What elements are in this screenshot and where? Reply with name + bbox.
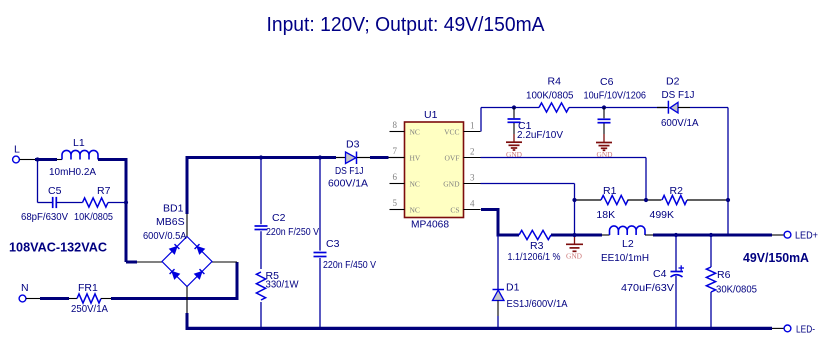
svg-text:2.2uF/10V: 2.2uF/10V [517, 129, 563, 141]
svg-text:C3: C3 [326, 238, 340, 250]
svg-text:R7: R7 [97, 185, 111, 197]
svg-text:N: N [21, 282, 29, 294]
svg-text:BD1: BD1 [163, 203, 184, 215]
svg-text:220n F/450 V: 220n F/450 V [323, 259, 376, 271]
svg-text:CS: CS [450, 205, 459, 214]
svg-text:2: 2 [470, 146, 475, 156]
svg-text:10K/0805: 10K/0805 [74, 211, 113, 223]
svg-text:1: 1 [470, 120, 475, 130]
svg-text:U1: U1 [424, 109, 438, 121]
svg-text:49V/150mA: 49V/150mA [743, 250, 810, 265]
svg-text:LED-: LED- [796, 324, 815, 336]
svg-text:18K: 18K [596, 209, 615, 221]
svg-text:600V/0.5A: 600V/0.5A [143, 230, 187, 242]
svg-text:LED+: LED+ [795, 230, 818, 242]
svg-text:R2: R2 [670, 185, 684, 197]
svg-text:FR1: FR1 [78, 282, 98, 294]
svg-text:NC: NC [410, 179, 420, 188]
svg-text:C5: C5 [48, 185, 62, 197]
svg-text:108VAC-132VAC: 108VAC-132VAC [9, 240, 108, 255]
svg-text:DS F1J: DS F1J [335, 165, 364, 177]
svg-text:600V/1A: 600V/1A [661, 117, 699, 129]
svg-text:499K: 499K [650, 209, 675, 221]
svg-text:68pF/630V: 68pF/630V [21, 211, 68, 223]
svg-text:VCC: VCC [444, 127, 459, 136]
svg-text:MB6S: MB6S [156, 216, 185, 228]
svg-text:L1: L1 [73, 137, 85, 149]
svg-text:ES1J/600V/1A: ES1J/600V/1A [507, 298, 568, 310]
svg-text:HV: HV [410, 153, 421, 162]
svg-text:GND: GND [443, 179, 460, 188]
svg-text:D1: D1 [506, 282, 520, 294]
svg-text:NC: NC [410, 127, 420, 136]
svg-text:7: 7 [393, 146, 398, 156]
svg-text:30K/0805: 30K/0805 [716, 284, 757, 296]
svg-text:10mH0.2A: 10mH0.2A [49, 166, 96, 178]
svg-text:OVF: OVF [444, 153, 459, 162]
svg-text:L: L [14, 143, 20, 155]
svg-text:250V/1A: 250V/1A [71, 303, 108, 315]
svg-text:NC: NC [410, 205, 420, 214]
svg-text:L2: L2 [622, 238, 634, 250]
svg-text:R4: R4 [548, 76, 562, 88]
svg-text:DS F1J: DS F1J [662, 89, 695, 101]
svg-text:C6: C6 [600, 76, 614, 88]
svg-text:220n F/250 V: 220n F/250 V [266, 226, 319, 238]
svg-text:Input: 120V; Output: 49V/150mA: Input: 120V; Output: 49V/150mA [267, 14, 546, 36]
svg-text:8: 8 [393, 120, 398, 130]
svg-text:6: 6 [393, 172, 398, 182]
svg-text:GND: GND [566, 252, 583, 261]
svg-text:100K/0805: 100K/0805 [526, 90, 574, 102]
svg-text:C2: C2 [272, 212, 286, 224]
svg-text:10uF/10V/1206: 10uF/10V/1206 [584, 90, 647, 102]
svg-text:C4: C4 [653, 268, 667, 280]
svg-text:5: 5 [393, 198, 398, 208]
svg-text:3: 3 [470, 172, 475, 182]
svg-text:4: 4 [470, 198, 475, 208]
svg-text:EE10/1mH: EE10/1mH [601, 252, 649, 264]
svg-text:R6: R6 [717, 269, 731, 281]
svg-text:1.1/1206/1 %: 1.1/1206/1 % [508, 251, 561, 263]
svg-text:600V/1A: 600V/1A [328, 178, 368, 190]
svg-text:D3: D3 [346, 139, 360, 151]
svg-text:R1: R1 [603, 185, 617, 197]
svg-text:MP4068: MP4068 [411, 219, 449, 231]
svg-text:330/1W: 330/1W [266, 279, 299, 291]
svg-text:470uF/63V: 470uF/63V [621, 282, 674, 294]
svg-text:D2: D2 [666, 76, 680, 88]
